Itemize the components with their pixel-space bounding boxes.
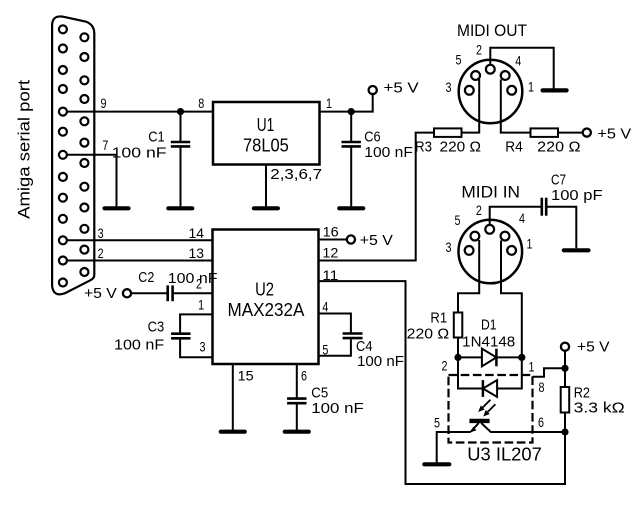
svg-text:C5: C5 [311,385,328,401]
svg-text:U3 IL207: U3 IL207 [467,445,542,465]
svg-text:MIDI IN: MIDI IN [461,184,520,202]
svg-text:C7: C7 [551,173,566,189]
light arrow 1 [478,400,490,412]
U2 pin 6 stem with C5 [296,364,298,430]
svg-text:5: 5 [455,212,461,228]
svg-text:1: 1 [198,297,204,313]
capacitor C7 [542,198,546,216]
svg-text:12: 12 [322,245,338,261]
svg-text:2: 2 [476,202,482,218]
ground (pin 7) [105,206,129,210]
svg-text:R4: R4 [505,140,523,156]
+5 V terminal (R4) [583,129,591,137]
svg-text:C1: C1 [148,130,165,146]
ground (MIDI OUT) [543,88,567,92]
U2 pin 15 stem [232,364,234,430]
svg-text:2: 2 [196,276,202,292]
svg-text:C2: C2 [138,270,154,286]
svg-text:2: 2 [442,358,448,374]
wire MIDI OUT pin 4 to R4 [501,80,531,133]
resistor R2 [561,387,570,413]
svg-text:220 Ω: 220 Ω [440,140,482,156]
capacitor C2 [131,285,212,301]
resistor R1 [454,313,463,338]
svg-text:U1: U1 [257,115,275,135]
wire R4 to +5V [558,132,583,134]
svg-text:11: 11 [322,267,338,283]
MIDI OUT pin 3 hole [465,86,474,95]
wire MIDI OUT pin 2 to ground [490,48,553,89]
connector J1 pin holes left column [59,25,67,286]
wire C7 to ground [548,207,577,249]
svg-text:78L05: 78L05 [243,136,289,156]
svg-text:100 nF: 100 nF [168,271,218,287]
wire pin 3 to U2 pin 14 [67,239,213,241]
svg-text:C4: C4 [356,339,373,355]
capacitor C5 [287,399,306,404]
diode D1 1N4148 [458,349,522,367]
ground (C7) [564,248,589,252]
wire pin 2 to U2 pin 13 [67,260,213,262]
+5 V terminal (U2 pin 16) [347,235,355,243]
svg-text:7: 7 [102,137,108,153]
svg-text:100 nF: 100 nF [112,146,167,162]
svg-text:C6: C6 [364,130,380,146]
wire LED cathode to node 1 [497,361,522,389]
+5 V terminal (top) [369,86,377,94]
MIDI IN pin 1 hole [507,246,516,255]
svg-text:100 pF: 100 pF [551,188,603,204]
ground (U1) [254,206,278,210]
ground (U2 pin 15) [221,430,245,434]
svg-text:4: 4 [515,53,521,69]
svg-text:220 Ω: 220 Ω [537,140,580,156]
connector J1 pin holes right column [80,33,88,276]
svg-text:3: 3 [446,239,452,255]
wire pin 7 stub [67,155,117,207]
svg-text:+5 V: +5 V [360,232,393,249]
wire U1 pin 1 to +5V and C6 [320,94,373,111]
svg-text:3: 3 [200,339,206,355]
node junction C1 / U1 pin 8 [177,108,184,115]
svg-text:3: 3 [446,79,452,95]
node 2 junction [454,354,461,361]
resistor R4 [531,128,559,137]
svg-text:U2: U2 [255,280,274,300]
node junction C6 [348,108,355,115]
wire U3 pin 8 to +5V node [533,368,566,376]
svg-text:4: 4 [519,210,525,226]
svg-text:13: 13 [189,245,205,261]
MIDI IN pin 2 hole [485,225,494,234]
connector MIDI IN DIN body [459,220,523,284]
light arrow 2 [483,404,495,416]
svg-text:1: 1 [528,79,534,95]
svg-text:16: 16 [323,224,339,240]
MIDI OUT pin 2 hole [486,65,495,74]
node 1 junction [518,354,525,361]
svg-text:6: 6 [301,367,307,383]
svg-text:14: 14 [189,225,205,241]
svg-text:Amiga serial port: Amiga serial port [15,80,34,219]
wire R1 to node 2 [457,338,459,358]
wire U2 pin 12 to R3 [319,133,435,261]
wire U3 pin 5 emitter to ground [437,432,471,462]
capacitor C6 [342,112,361,207]
svg-text:R2: R2 [574,386,590,402]
svg-text:8: 8 [198,95,204,111]
MIDI IN pin 4 hole [501,232,510,241]
svg-text:1: 1 [529,359,535,375]
svg-text:2: 2 [98,245,104,261]
svg-text:4: 4 [322,299,328,315]
ground (U3 pin 5) [424,462,449,466]
svg-text:1N4148: 1N4148 [462,335,515,351]
ground (C1) [168,206,192,210]
svg-text:MIDI OUT: MIDI OUT [457,22,527,40]
svg-text:R1: R1 [430,311,447,327]
MIDI IN pin 3 hole [465,246,474,255]
U3 phototransistor [469,421,490,433]
MIDI OUT pin 1 hole [507,86,516,95]
node junction R2 / pin 6 / rail [561,428,568,435]
U1 ground pin 2,3,6,7 stem [265,165,267,207]
node junction +5V / pin 8 [561,365,568,372]
svg-text:100 nF: 100 nF [357,354,404,370]
MIDI IN pin 5 hole [471,232,480,241]
svg-text:+5 V: +5 V [577,339,610,356]
capacitor C1 [171,112,190,207]
svg-text:C3: C3 [148,320,165,336]
svg-text:5: 5 [456,52,462,68]
svg-text:2: 2 [476,42,482,58]
wire U2 pin 4 loop to C4 and pin 5 [319,314,351,356]
resistor R3 [434,128,462,137]
svg-text:3: 3 [98,225,104,241]
svg-text:100 nF: 100 nF [311,401,364,417]
svg-text:100 nF: 100 nF [114,338,164,354]
svg-text:+5 V: +5 V [597,126,631,143]
connector J1 DB25 Amiga serial port body [52,16,94,294]
svg-text:100 nF: 100 nF [364,145,413,161]
wire MIDI IN pin 4 to node 1 [501,241,522,358]
svg-text:+5 V: +5 V [384,80,419,97]
+5 V terminal (C2) [123,289,131,297]
svg-text:MAX232A: MAX232A [228,300,305,320]
svg-text:1: 1 [326,95,332,111]
svg-text:R3: R3 [415,140,432,156]
capacitor C3 [171,334,190,339]
MIDI OUT pin 5 hole [471,71,480,80]
svg-text:5: 5 [322,341,328,357]
svg-text:220 Ω: 220 Ω [407,327,450,343]
svg-text:D1: D1 [481,318,497,334]
IC U1 78L05 box [213,102,320,165]
svg-text:3.3 kΩ: 3.3 kΩ [574,401,625,417]
svg-text:1: 1 [527,236,533,252]
connector MIDI OUT DIN body [459,60,523,124]
IC U2 MAX232A box [213,230,319,365]
wire U2 pin 11 to bottom rail [319,281,566,484]
U3 LED (pointing left) [483,380,497,397]
wire U3 pin 6 collector to R2 bottom node [490,431,565,433]
wire R2 to pin 6 node [564,413,566,433]
wire U2 pin 16 to +5V [319,239,347,241]
+5 V terminal (R2) [561,343,569,351]
wire MIDI IN pin 2 to C7 [490,207,541,225]
capacitor C4 [343,334,363,339]
ground (C5) [285,430,309,434]
svg-text:+5 V: +5 V [84,285,117,302]
wire node 2 to LED anode [458,357,483,388]
ground (C6) [339,206,363,210]
svg-text:6: 6 [538,414,544,430]
MIDI OUT pin 4 hole [501,71,510,80]
wire pin 9 to U1 pin 8 [67,111,213,113]
svg-text:8: 8 [539,379,545,395]
wire +5V to node [564,351,566,387]
svg-text:15: 15 [238,367,254,383]
svg-text:5: 5 [434,415,440,431]
wire U2 pin 1 loop to C3 and pin 3 [180,314,212,357]
wire MIDI OUT pin 5 to R3 [462,79,480,133]
wire MIDI IN pin 5 to R1 [458,240,479,313]
optocoupler U3 IL207 dashed box [449,375,533,443]
svg-text:2,3,6,7: 2,3,6,7 [270,167,322,183]
svg-text:9: 9 [101,95,107,111]
